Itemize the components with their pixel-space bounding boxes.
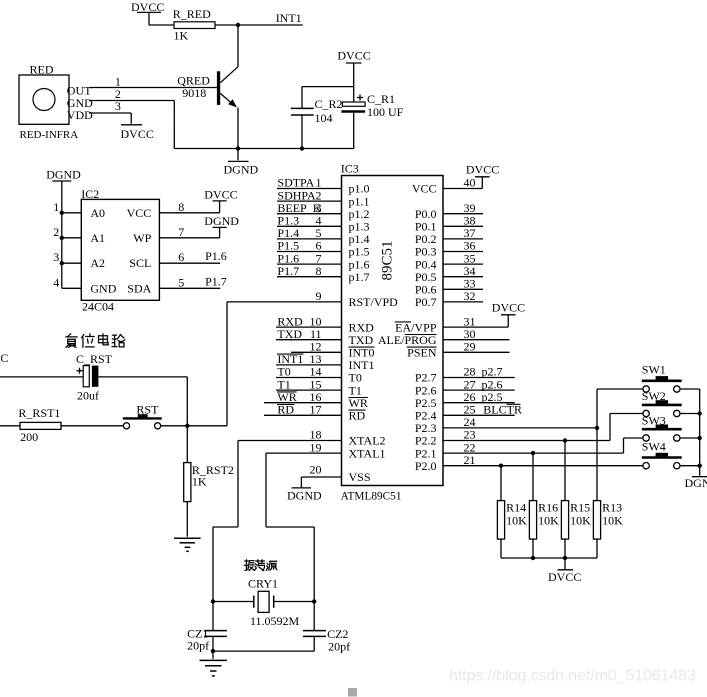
svg-text:DVCC: DVCC bbox=[466, 162, 499, 176]
svg-text:DGND: DGND bbox=[685, 476, 707, 490]
svg-text:P2.0: P2.0 bbox=[415, 459, 437, 473]
svg-text:ATML89C51: ATML89C51 bbox=[341, 490, 402, 502]
svg-text:10K: 10K bbox=[570, 513, 591, 527]
svg-text:CC: CC bbox=[0, 351, 8, 365]
svg-text:SW3: SW3 bbox=[642, 413, 666, 427]
svg-text:8: 8 bbox=[316, 264, 322, 278]
svg-text:2: 2 bbox=[53, 225, 59, 239]
svg-text:WP: WP bbox=[133, 231, 151, 245]
svg-text:19: 19 bbox=[310, 440, 322, 454]
svg-text:P1.7: P1.7 bbox=[205, 274, 227, 288]
svg-text:SW1: SW1 bbox=[642, 362, 666, 376]
svg-text:DGND: DGND bbox=[46, 167, 81, 181]
svg-text:DVCC: DVCC bbox=[492, 300, 525, 314]
svg-text:10K: 10K bbox=[506, 513, 527, 527]
svg-text:CRY1: CRY1 bbox=[248, 577, 278, 591]
svg-text:A2: A2 bbox=[90, 256, 105, 270]
svg-text:DVCC: DVCC bbox=[204, 188, 237, 202]
svg-text:P1.6: P1.6 bbox=[205, 249, 227, 263]
svg-text:RST: RST bbox=[136, 402, 159, 416]
svg-text:32: 32 bbox=[464, 289, 476, 303]
svg-text:VDD: VDD bbox=[67, 108, 93, 122]
svg-text:DVCC: DVCC bbox=[131, 0, 164, 14]
svg-text:RD: RD bbox=[349, 409, 366, 423]
svg-text:20pf: 20pf bbox=[328, 640, 350, 654]
svg-text:5: 5 bbox=[178, 275, 184, 289]
svg-text:9018: 9018 bbox=[182, 86, 206, 100]
svg-text:SW4: SW4 bbox=[642, 440, 666, 454]
svg-text:1: 1 bbox=[53, 200, 59, 214]
svg-text:8: 8 bbox=[178, 200, 184, 214]
svg-text:11.0592M: 11.0592M bbox=[250, 614, 300, 628]
svg-text:A0: A0 bbox=[90, 206, 105, 220]
svg-text:SW2: SW2 bbox=[642, 389, 666, 403]
svg-text:https://blog.csdn.net/m0_51061: https://blog.csdn.net/m0_51061483 bbox=[449, 668, 696, 685]
svg-text:89C51: 89C51 bbox=[380, 240, 396, 280]
svg-text:DVCC: DVCC bbox=[337, 49, 370, 63]
svg-text:P1.7: P1.7 bbox=[277, 264, 299, 278]
svg-text:21: 21 bbox=[464, 453, 476, 467]
svg-text:TXD: TXD bbox=[277, 327, 302, 341]
svg-text:VSS: VSS bbox=[349, 470, 371, 484]
svg-text:6: 6 bbox=[178, 250, 184, 264]
svg-text:9: 9 bbox=[316, 289, 322, 303]
svg-text:P0.7: P0.7 bbox=[415, 295, 437, 309]
svg-text:IC2: IC2 bbox=[81, 187, 99, 201]
svg-text:17: 17 bbox=[310, 403, 322, 417]
svg-text:BLCTR: BLCTR bbox=[483, 403, 522, 417]
svg-text:A1: A1 bbox=[90, 231, 105, 245]
svg-text:PSEN: PSEN bbox=[407, 346, 437, 360]
svg-text:C_R2: C_R2 bbox=[315, 97, 343, 111]
svg-text:RED: RED bbox=[30, 63, 54, 77]
svg-text:200: 200 bbox=[20, 430, 38, 444]
svg-text:R_RED: R_RED bbox=[173, 7, 211, 21]
svg-text:20: 20 bbox=[310, 462, 322, 476]
svg-text:SCL: SCL bbox=[129, 256, 151, 270]
svg-text:10K: 10K bbox=[602, 513, 623, 527]
svg-text:C_RST: C_RST bbox=[76, 352, 113, 366]
svg-text:4: 4 bbox=[53, 275, 59, 289]
svg-text:p1.7: p1.7 bbox=[349, 270, 370, 284]
svg-text:104: 104 bbox=[315, 111, 333, 125]
svg-text:1K: 1K bbox=[174, 28, 189, 42]
svg-text:DVCC: DVCC bbox=[121, 127, 154, 141]
svg-text:IC3: IC3 bbox=[341, 161, 359, 175]
svg-text:DVCC: DVCC bbox=[548, 570, 581, 584]
svg-text:VCC: VCC bbox=[412, 182, 437, 196]
svg-text:1K: 1K bbox=[192, 474, 207, 488]
svg-text:10K: 10K bbox=[538, 513, 559, 527]
svg-text:DGND: DGND bbox=[204, 214, 239, 228]
svg-text:7: 7 bbox=[178, 225, 184, 239]
svg-text:RST/VPD: RST/VPD bbox=[349, 295, 399, 309]
svg-text:INT1: INT1 bbox=[276, 11, 302, 25]
svg-text:20pf: 20pf bbox=[187, 639, 209, 653]
svg-text:VCC: VCC bbox=[127, 206, 152, 220]
svg-text:XTAL1: XTAL1 bbox=[349, 446, 386, 460]
svg-text:RED-INFRA: RED-INFRA bbox=[20, 129, 79, 141]
svg-text:RD: RD bbox=[277, 403, 294, 417]
svg-text:SDA: SDA bbox=[127, 281, 151, 295]
svg-text:3: 3 bbox=[53, 250, 59, 264]
svg-text:R_RST1: R_RST1 bbox=[18, 406, 60, 420]
svg-text:40: 40 bbox=[464, 176, 476, 190]
svg-text:3: 3 bbox=[115, 99, 121, 113]
svg-text:29: 29 bbox=[464, 340, 476, 354]
svg-text:24C04: 24C04 bbox=[82, 300, 114, 314]
svg-text:20uf: 20uf bbox=[77, 388, 99, 402]
svg-text:GND: GND bbox=[90, 281, 116, 295]
svg-text:DGND: DGND bbox=[224, 163, 259, 177]
svg-text:100 UF: 100 UF bbox=[367, 105, 404, 119]
svg-text:DGND: DGND bbox=[287, 488, 322, 502]
